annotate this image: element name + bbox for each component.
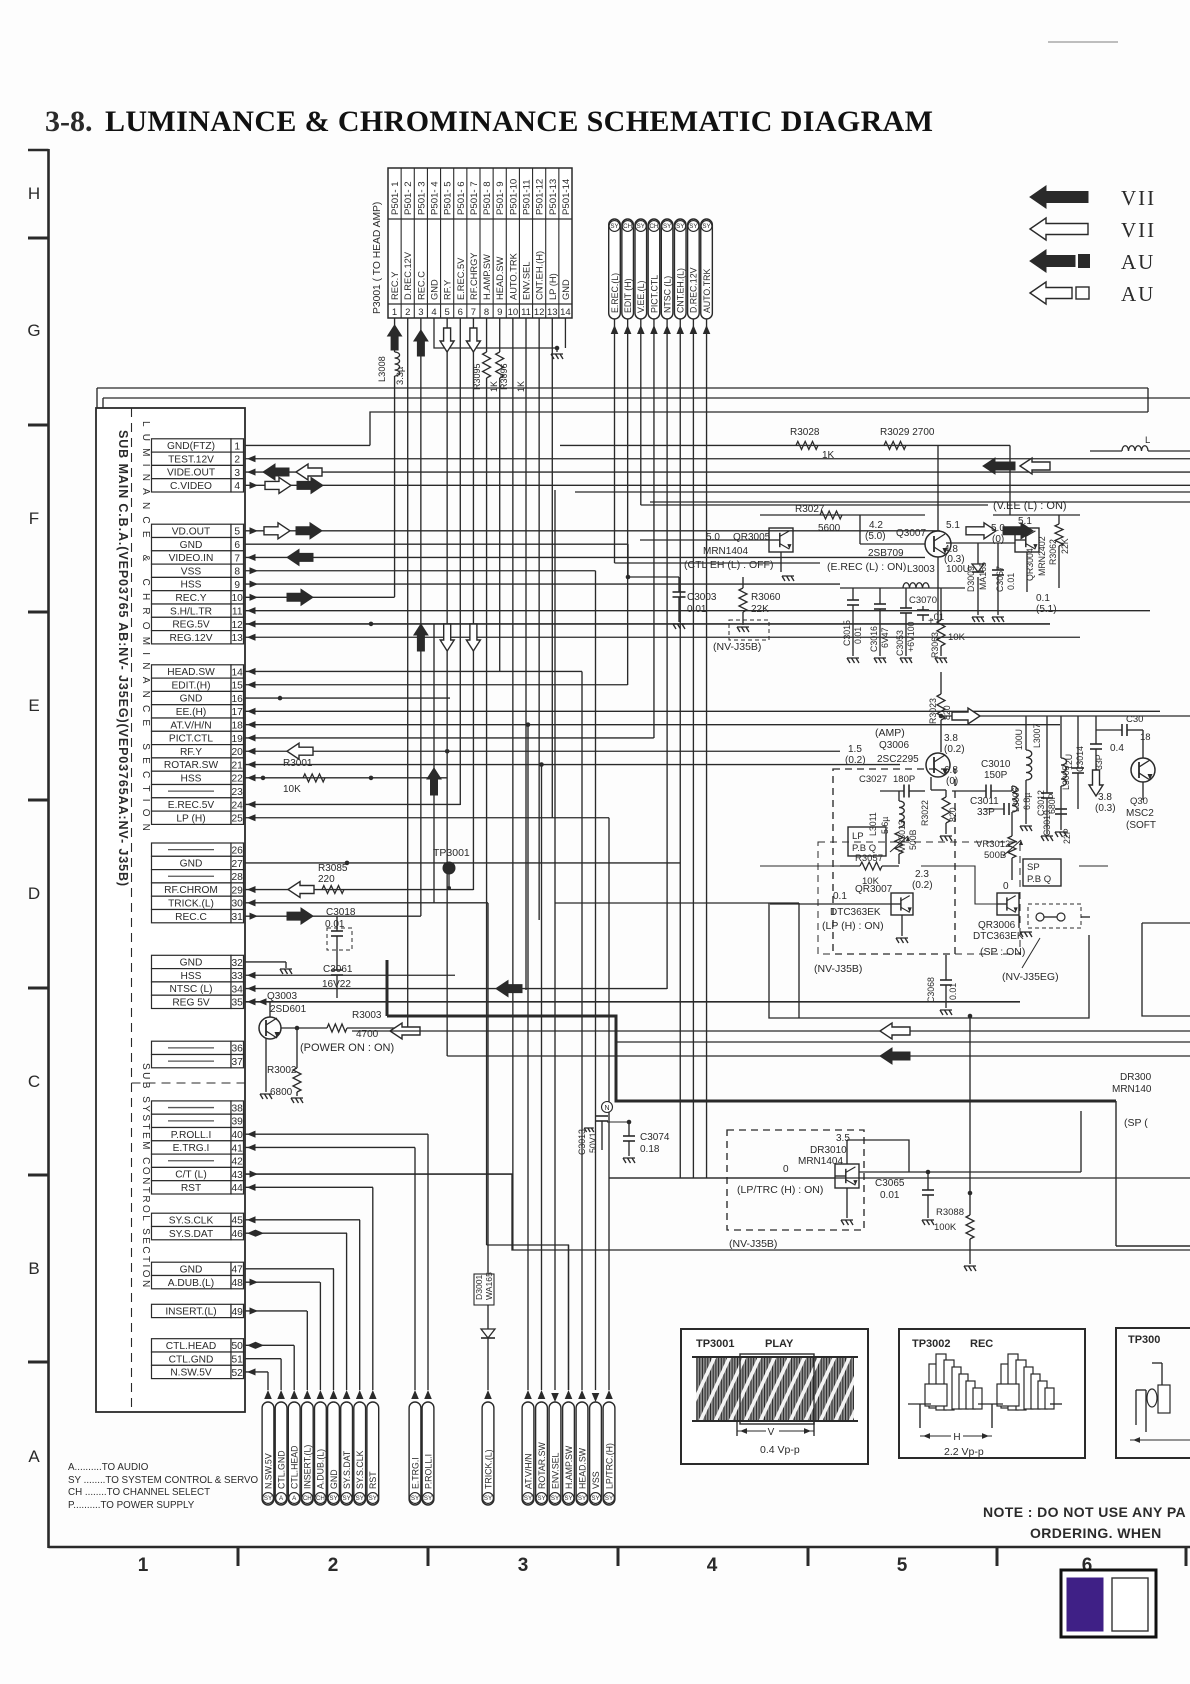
svg-text:0.1: 0.1	[833, 891, 847, 902]
pin row 5 VD.OUT	[152, 524, 244, 537]
wire qr3010 collector	[847, 1140, 909, 1172]
svg-text:GND: GND	[561, 279, 571, 300]
svg-text:R3085: R3085	[318, 863, 348, 874]
wire P3001 pin4 GND	[434, 318, 557, 352]
wire pin 20	[245, 750, 840, 752]
svg-text:6.8µ: 6.8µ	[1022, 793, 1032, 810]
wire capsule GND bottom	[333, 1269, 335, 1390]
svg-text:HSS: HSS	[181, 971, 202, 982]
svg-text:50: 50	[232, 1341, 244, 1352]
arrow down outline on pin5	[440, 328, 454, 352]
svg-text:EE.(H): EE.(H)	[176, 707, 207, 718]
svg-text:D.REC.12V: D.REC.12V	[689, 267, 699, 313]
svg-text:33: 33	[232, 971, 244, 982]
svg-text:(0.2): (0.2)	[912, 880, 933, 891]
svg-text:GND(FTZ): GND(FTZ)	[167, 441, 215, 452]
capacitor C3061 16V22	[322, 947, 353, 998]
pin row 37 -	[152, 1055, 244, 1068]
svg-text:22: 22	[232, 774, 244, 785]
wire Q3007 emitter up	[937, 445, 939, 531]
arrowhead pin 7	[247, 554, 256, 561]
svg-text:Q3006: Q3006	[879, 740, 909, 751]
svg-text:12U: 12U	[1064, 754, 1074, 770]
capacitor C3014 12U	[1064, 716, 1085, 809]
wire pin 33	[245, 974, 455, 976]
capacitor C3070 .01	[909, 595, 944, 627]
svg-text:GND: GND	[430, 279, 440, 300]
svg-text:PICT.CTL: PICT.CTL	[169, 734, 213, 745]
pin row 33 HSS	[152, 969, 244, 982]
svg-text:N.SW.5V: N.SW.5V	[170, 1368, 212, 1379]
svg-text:36: 36	[232, 1044, 244, 1055]
svg-text:C3011: C3011	[970, 796, 999, 807]
arrow outline right y716	[952, 708, 980, 724]
wire V.EE node2	[641, 504, 988, 506]
wire P3001 pin1 (REC.Y)	[394, 318, 396, 352]
bottom capsule GND	[328, 1402, 340, 1505]
svg-text:C3070: C3070	[909, 595, 937, 606]
wire capsule H.AMP.SW	[568, 1245, 570, 1390]
pin row 13 REG.12V	[152, 631, 244, 644]
wire capsule CTL.GND	[280, 1359, 282, 1390]
wire Q3007 base	[860, 543, 925, 545]
arrowhead pin 33	[247, 972, 256, 979]
svg-text:D.REC.12V: D.REC.12V	[403, 251, 413, 300]
svg-text:GND: GND	[180, 1264, 203, 1275]
arrowhead pin 12	[247, 620, 256, 627]
pin row 47 GND	[152, 1262, 244, 1275]
svg-text:C3013: C3013	[577, 1129, 587, 1155]
svg-text:2: 2	[234, 455, 240, 466]
svg-text:P.ROLL.I: P.ROLL.I	[423, 1454, 433, 1489]
wire P3001 pin13 (LP)	[551, 318, 553, 818]
svg-text:P501- 2: P501- 2	[403, 181, 414, 215]
bottom capsule SY.S.DAT	[341, 1402, 353, 1505]
svg-text:RF.Y: RF.Y	[443, 280, 453, 300]
svg-text:220: 220	[318, 874, 335, 885]
wire P3001 pin5 (RF.Y)	[446, 318, 448, 751]
wire capsule TRICK	[487, 903, 489, 1274]
svg-text:VIDE.OUT: VIDE.OUT	[167, 468, 215, 479]
svg-text:0.01: 0.01	[880, 1190, 900, 1201]
waveform box TP3001 PLAY	[681, 1329, 896, 1464]
inductor L3008 3.3u	[377, 352, 405, 385]
wire P3001 pin2	[407, 318, 409, 1031]
resistor R3023 820	[928, 672, 952, 752]
arrow pair row4	[265, 477, 291, 493]
svg-text:5: 5	[444, 307, 449, 318]
svg-text:LP (H): LP (H)	[548, 273, 558, 300]
pin row 12 REG.5V	[152, 617, 244, 630]
svg-text:1: 1	[138, 1555, 149, 1576]
wire pin 17	[245, 710, 1160, 712]
title	[45, 105, 933, 138]
wire pin 15	[245, 684, 628, 686]
pin row 18 AT.V/H/N	[152, 718, 244, 731]
legend arrow AUDIO outline	[1030, 282, 1155, 306]
svg-text:P501- 3: P501- 3	[416, 181, 427, 215]
svg-text:C: C	[28, 1072, 40, 1091]
arrowhead pin 46	[247, 1230, 256, 1237]
svg-text:HSS: HSS	[181, 773, 202, 784]
svg-text:27: 27	[232, 859, 244, 870]
svg-text:L3011: L3011	[868, 812, 878, 836]
svg-text:C3065: C3065	[875, 1178, 905, 1189]
wire y1056 arrowed	[447, 1055, 1190, 1057]
wire qr3004 row	[937, 588, 939, 624]
svg-text:3-8.: 3-8.	[45, 105, 93, 138]
arrow up solid on pin3	[414, 330, 428, 356]
svg-text:DTC363EK: DTC363EK	[830, 907, 881, 918]
svg-text:R3022: R3022	[920, 800, 930, 826]
svg-text:4.2: 4.2	[869, 520, 883, 531]
wire bus y1168 to y1250	[245, 1174, 1190, 1250]
svg-text:4: 4	[234, 481, 240, 492]
svg-text:SP: SP	[1027, 862, 1040, 873]
svg-text:N: N	[604, 1105, 609, 1112]
svg-text:P501- 8: P501- 8	[482, 181, 493, 215]
svg-text:VD.OUT: VD.OUT	[172, 526, 211, 537]
arrowhead pin 10	[250, 594, 259, 601]
svg-text:MSC2: MSC2	[1126, 808, 1154, 819]
svg-text:EDIT (H): EDIT (H)	[623, 278, 633, 313]
svg-text:820: 820	[948, 807, 958, 822]
pin row 6 GND	[152, 538, 244, 551]
svg-text:6.8: 6.8	[944, 765, 958, 776]
svg-text:SUB SYSTEM CONTROL SECTION: SUB SYSTEM CONTROL SECTION	[140, 1063, 151, 1290]
svg-text:E.TRG.I: E.TRG.I	[173, 1143, 210, 1154]
wire top capsule 2	[627, 319, 629, 685]
svg-text:10K: 10K	[283, 784, 301, 795]
svg-text:2SB709: 2SB709	[868, 548, 904, 559]
wire pin 46	[245, 1232, 347, 1234]
svg-text:2.3: 2.3	[915, 869, 929, 880]
svg-text:10K: 10K	[948, 632, 966, 643]
svg-text:47: 47	[232, 1265, 244, 1276]
pin row 22 HSS	[152, 771, 244, 784]
wire E.REC node	[615, 562, 821, 564]
capacitor C3010 150P	[952, 759, 1012, 798]
svg-text:0.18: 0.18	[640, 1144, 660, 1155]
svg-text:HEAD.SW: HEAD.SW	[495, 256, 505, 300]
svg-text:ENV.SEL: ENV.SEL	[522, 262, 532, 300]
svg-text:E.REC.(L): E.REC.(L)	[610, 273, 620, 313]
waveform box TP3003	[1116, 1328, 1190, 1458]
svg-text:SY: SY	[610, 223, 618, 230]
svg-text:SY: SY	[605, 1495, 613, 1502]
svg-text:12: 12	[232, 620, 244, 631]
wire capsule E.TRG.I	[414, 1147, 416, 1390]
svg-text:14: 14	[560, 307, 571, 318]
capacitor C3074 0.18	[607, 1120, 670, 1163]
svg-text:REC.Y: REC.Y	[175, 593, 206, 604]
svg-text:18: 18	[232, 720, 244, 731]
svg-text:REC.C: REC.C	[416, 271, 426, 300]
svg-text:TRICK.(L): TRICK.(L)	[483, 1449, 493, 1489]
resistor R3002 6800	[267, 1028, 303, 1103]
bottom capsule HEAD.SW	[576, 1402, 588, 1505]
wire capsule SY.S.DAT	[346, 1233, 348, 1390]
svg-text:9: 9	[497, 307, 502, 318]
pin row 44 RST	[152, 1181, 244, 1194]
svg-text:CTL.HEAD: CTL.HEAD	[166, 1341, 216, 1352]
svg-text:R3063: R3063	[930, 632, 940, 658]
svg-text:LUMINANCE & CHROMINANCE SCHEMA: LUMINANCE & CHROMINANCE SCHEMATIC DIAGRA…	[105, 105, 933, 138]
arrowhead pin 21	[247, 761, 256, 768]
svg-text:TP3001: TP3001	[433, 847, 470, 859]
wire P3001 pin12 (CNT.EH)	[538, 318, 540, 920]
wire Q3003 emitter to ground	[265, 1038, 267, 1092]
pin row 45 SY.S.CLK	[152, 1213, 244, 1226]
arrow up solid on pin1	[388, 325, 402, 350]
arrowhead pin 43	[250, 1171, 259, 1178]
svg-text:46: 46	[232, 1229, 244, 1240]
transistor Q3007 2SB709	[827, 520, 965, 573]
varistor VR3013 500B	[890, 820, 918, 864]
svg-text:PLAY: PLAY	[765, 1338, 794, 1350]
svg-text:(LP (H) : ON): (LP (H) : ON)	[822, 920, 884, 932]
pin row 35 REG 5V	[152, 995, 244, 1008]
svg-text:AT.V/H/N: AT.V/H/N	[523, 1453, 533, 1489]
pin row 16 GND	[152, 691, 244, 704]
wire pin 7	[245, 556, 925, 558]
svg-text:E.TRG.I: E.TRG.I	[410, 1457, 420, 1489]
svg-text:S.H/L.TR: S.H/L.TR	[170, 606, 212, 617]
capacitor 33P right	[1090, 716, 1104, 770]
svg-text:A: A	[28, 1447, 40, 1466]
svg-text:G: G	[27, 321, 40, 340]
wire P3001 pin7 (RF.CHRGY)	[472, 318, 474, 890]
svg-text:SY: SY	[537, 1495, 545, 1502]
svg-text:7: 7	[471, 307, 476, 318]
svg-text:L3007: L3007	[1032, 723, 1042, 748]
transistor Q30xx MSC2 right edge	[1095, 730, 1156, 831]
svg-text:ROTAR.SW: ROTAR.SW	[164, 760, 219, 771]
transistor QR3006 DTC363EK	[973, 881, 1032, 958]
pin row 42 -	[152, 1154, 244, 1167]
capacitor C3012 680P	[1036, 716, 1057, 841]
svg-text:C3016: C3016	[869, 626, 879, 652]
resistor R3028 1K	[790, 427, 835, 461]
svg-text:(NV-J35EG): (NV-J35EG)	[1002, 971, 1059, 983]
pin row 43 C/T (L)	[152, 1167, 244, 1180]
svg-text:LP (H): LP (H)	[176, 813, 205, 824]
wire pin 40	[245, 1133, 428, 1135]
arrow outline left near R3003	[390, 1023, 420, 1039]
svg-text:7: 7	[234, 553, 240, 564]
svg-text:GND: GND	[329, 1469, 339, 1489]
arrowhead pin 52	[247, 1368, 256, 1375]
svg-text:EDIT.(H): EDIT.(H)	[171, 680, 210, 691]
svg-text:SY: SY	[369, 1495, 377, 1502]
svg-text:REC.C: REC.C	[175, 912, 207, 923]
svg-text:SY: SY	[591, 1495, 599, 1502]
svg-text:52: 52	[232, 1368, 244, 1379]
svg-text:40: 40	[232, 1130, 244, 1141]
wire pin 12	[245, 623, 1050, 625]
wire top capsule 1	[614, 319, 616, 563]
arrow row31 filled	[287, 908, 313, 924]
wire y903	[555, 902, 799, 904]
svg-text:R3062: R3062	[1048, 539, 1058, 565]
svg-text:QR3006: QR3006	[978, 920, 1016, 931]
wire capsule AT.V/H/N	[527, 725, 529, 1390]
arrowhead pin 22	[247, 774, 256, 781]
svg-text:MA165: MA165	[978, 562, 988, 590]
box output section	[769, 903, 1089, 1018]
pin row 7 VIDEO.IN	[152, 551, 244, 564]
capacitor C3019 22P	[1042, 809, 1072, 844]
svg-text:(5.0): (5.0)	[865, 531, 886, 542]
svg-text:C3074: C3074	[640, 1132, 670, 1143]
svg-text:P501-13: P501-13	[548, 179, 559, 215]
svg-text:42: 42	[232, 1157, 244, 1168]
arrow row20 outline	[287, 743, 313, 759]
svg-text:PICT.CTL: PICT.CTL	[649, 275, 659, 313]
svg-text:31: 31	[232, 912, 244, 923]
svg-text:1.5: 1.5	[848, 744, 862, 755]
resistor R3001 10K	[283, 758, 325, 795]
wire pin 11	[245, 610, 1150, 612]
bottom capsule ENV.SEL	[549, 1402, 561, 1505]
legend arrow VIDEO solid	[1030, 186, 1156, 210]
dashed box LP/TRC	[727, 1130, 864, 1230]
capacitor C30xx 0.4	[1096, 714, 1151, 754]
arrowhead pin 5	[250, 527, 259, 534]
svg-text:SY: SY	[356, 1495, 364, 1502]
wire lp/trc feed	[609, 1177, 835, 1179]
wire capsule ENV.SEL	[554, 490, 556, 1390]
svg-text:TRICK.(L): TRICK.(L)	[168, 898, 214, 909]
svg-text:RF.CHROM: RF.CHROM	[164, 885, 218, 896]
svg-text:VR3013: VR3013	[897, 820, 907, 852]
svg-text:R3088: R3088	[936, 1207, 964, 1218]
svg-text:AUTO.TRK: AUTO.TRK	[702, 269, 712, 313]
pin row 8 VSS	[152, 564, 244, 577]
svg-text:(5.1): (5.1)	[1036, 604, 1057, 615]
arrowhead pin 19	[247, 734, 256, 741]
svg-text:1K: 1K	[489, 381, 499, 392]
svg-text:MRN1404: MRN1404	[703, 546, 748, 557]
wire capsule VSS	[595, 571, 597, 1390]
pin row 15 EDIT.(H)	[152, 678, 244, 691]
svg-text:10: 10	[508, 307, 519, 318]
resistor R3095 1K	[472, 352, 499, 392]
svg-text:15: 15	[232, 681, 244, 692]
svg-text:R3002: R3002	[267, 1065, 297, 1076]
svg-text:C30: C30	[1126, 714, 1143, 725]
bottom capsule INSERT.(L)	[301, 1402, 313, 1505]
resistor R3063 10K	[930, 588, 966, 663]
svg-text:D3009: D3009	[966, 566, 976, 592]
svg-text:CH: CH	[316, 1495, 325, 1502]
svg-text:34: 34	[232, 984, 244, 995]
svg-text:TEST.12V: TEST.12V	[168, 454, 214, 465]
svg-text:L3006: L3006	[1011, 787, 1021, 812]
svg-text:P501- 9: P501- 9	[495, 181, 506, 215]
capacitor C3013 50V1 + node N	[577, 1101, 613, 1155]
svg-text:H: H	[28, 184, 40, 203]
arrow pair row5	[264, 523, 290, 539]
svg-text:CTL.GND: CTL.GND	[169, 1354, 214, 1365]
svg-text:QR3007: QR3007	[855, 884, 893, 895]
pin row 25 LP (H)	[152, 811, 244, 824]
wire pin 13	[245, 636, 1080, 638]
svg-text:R3003: R3003	[352, 1010, 382, 1021]
svg-text:51: 51	[232, 1354, 244, 1365]
svg-text:P501- 7: P501- 7	[469, 181, 480, 215]
wire top capsule 3	[640, 319, 642, 505]
svg-text:(LP/TRC (H) : ON): (LP/TRC (H) : ON)	[737, 1184, 823, 1196]
svg-text:24: 24	[232, 800, 244, 811]
arrowhead pin 18	[247, 721, 256, 728]
svg-text:B: B	[28, 1259, 39, 1278]
inductor L3003 100U	[903, 564, 970, 588]
wire pin 6	[245, 543, 628, 545]
svg-text:(V.EE (L) : ON): (V.EE (L) : ON)	[993, 500, 1067, 512]
svg-text:LUMINANCE & CHROMINANCE SECTIO: LUMINANCE & CHROMINANCE SECTION	[140, 421, 151, 838]
wire pin 14	[245, 670, 582, 672]
svg-text:C/T (L): C/T (L)	[175, 1170, 207, 1181]
wire right coil feed	[1147, 388, 1149, 412]
svg-text:50V1: 50V1	[588, 1132, 598, 1153]
arrowhead pin 50	[256, 1342, 265, 1349]
resistor R3096 1K	[496, 352, 526, 392]
svg-text:43: 43	[232, 1170, 244, 1181]
wire top capsule 4	[653, 319, 655, 738]
svg-text:26: 26	[232, 845, 244, 856]
svg-text:R3028: R3028	[790, 427, 820, 438]
arrowhead pin 48	[250, 1279, 259, 1286]
svg-text:GND: GND	[180, 958, 203, 969]
svg-text:Q3003: Q3003	[267, 991, 297, 1002]
svg-text:22K: 22K	[751, 604, 769, 615]
svg-text:SY: SY	[551, 1495, 559, 1502]
arrowhead pin 2	[247, 455, 256, 462]
wire P3001 pin6 (E.REC.5V)	[459, 318, 461, 805]
svg-text:Q3007: Q3007	[896, 528, 926, 539]
svg-text:5.1: 5.1	[1018, 516, 1032, 527]
pin row 31 REC.C	[152, 910, 244, 923]
resistor R3062 22K	[1048, 515, 1070, 588]
svg-text:20: 20	[232, 747, 244, 758]
bottom capsule VSS	[590, 1402, 602, 1505]
svg-text:C3053: C3053	[895, 630, 905, 656]
svg-text:SY: SY	[689, 223, 697, 230]
svg-text:(0.3): (0.3)	[1095, 803, 1116, 814]
wire pin 2	[245, 458, 1190, 460]
svg-text:SY.S.CLK: SY.S.CLK	[169, 1215, 214, 1226]
svg-text:(0): (0)	[992, 534, 1004, 545]
svg-text:VII: VII	[1121, 218, 1156, 242]
svg-text:GND: GND	[180, 859, 203, 870]
svg-text:E.REC.5V: E.REC.5V	[456, 257, 466, 300]
pin row 40 P.ROLL.I	[152, 1128, 244, 1141]
arrowhead pin 11	[247, 607, 256, 614]
wire pin 45	[245, 1219, 360, 1221]
wire pin 16	[245, 697, 450, 699]
wire capsule HEAD.SW	[581, 671, 583, 1390]
svg-text:6: 6	[234, 540, 240, 551]
svg-text:P501-12: P501-12	[535, 179, 546, 215]
wire y716 to right	[941, 715, 1190, 717]
arrowhead pin 46	[256, 1230, 265, 1237]
svg-text:(0.2): (0.2)	[944, 744, 965, 755]
wire y1172	[859, 1171, 1081, 1173]
svg-text:P.ROLL.I: P.ROLL.I	[171, 1130, 212, 1141]
svg-text:0.4 Vp-p: 0.4 Vp-p	[760, 1444, 800, 1456]
svg-text:REC: REC	[970, 1338, 993, 1350]
